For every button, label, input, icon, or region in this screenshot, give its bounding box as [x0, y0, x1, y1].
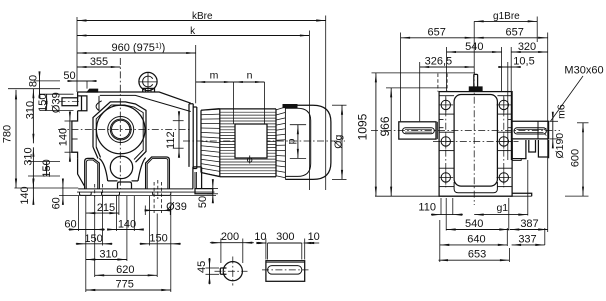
left stub keyway slot	[403, 128, 435, 134]
left foot hole lines dashed	[94, 184, 96, 197]
svg-text:Ø39: Ø39	[50, 92, 62, 113]
svg-text:kBre: kBre	[192, 11, 213, 22]
ext lines m n	[232, 82, 234, 124]
left foot rib	[85, 158, 100, 189]
dim kBre	[77, 20, 326, 22]
svg-text:45: 45	[196, 261, 208, 273]
motor body outline	[220, 109, 276, 177]
svg-text:200: 200	[221, 231, 239, 243]
motor flange block	[189, 104, 197, 169]
dim m	[196, 81, 234, 83]
ext line 657/320/387 right	[547, 33, 549, 233]
dim 45 keyway	[206, 267, 220, 269]
ext line 657 left	[400, 33, 402, 122]
left edge to foot	[78, 158, 85, 189]
svg-text:780: 780	[1, 125, 13, 143]
svg-text:150: 150	[149, 233, 167, 245]
cross section centerlines	[215, 270, 248, 272]
dim O190 m6	[550, 120, 559, 122]
svg-text:10: 10	[254, 231, 266, 243]
eyebolt cross lines	[139, 81, 158, 83]
dim 310 lower	[32, 147, 34, 188]
hollow shaft left stub	[399, 122, 436, 139]
bolt column centerlines	[445, 96, 447, 189]
bottom chain extension lines	[78, 196, 80, 231]
svg-text:657: 657	[506, 26, 524, 38]
housing left edge upper	[77, 92, 79, 98]
svg-text:140: 140	[58, 128, 70, 146]
lug mid line	[72, 138, 78, 140]
dim 355	[77, 66, 120, 68]
svg-text:653: 653	[468, 249, 486, 261]
svg-text:620: 620	[116, 264, 134, 276]
svg-text:540: 540	[465, 218, 483, 230]
svg-text:50: 50	[197, 196, 209, 208]
housing base	[375, 195, 532, 197]
left chain ext ticks	[8, 88, 60, 90]
dim 80	[39, 76, 41, 94]
svg-text:140: 140	[118, 219, 136, 231]
dim 310 upper	[32, 89, 34, 144]
terminal box	[235, 124, 267, 158]
ext line 326,5 left	[419, 62, 421, 121]
bottom ext lines right view	[440, 198, 442, 215]
dim 140 lug	[69, 114, 71, 159]
svg-text:10,5: 10,5	[513, 55, 534, 67]
ext line k right	[308, 31, 310, 191]
top eyebolt bump	[469, 87, 482, 92]
dim 50 motor foot	[207, 188, 218, 190]
motor fan cone section	[201, 109, 220, 177]
svg-text:m: m	[210, 70, 219, 82]
svg-text:310: 310	[24, 101, 36, 119]
svg-text:310: 310	[99, 249, 117, 261]
svg-text:g1Bre: g1Bre	[493, 11, 520, 22]
dim 540 bottom	[446, 229, 509, 231]
fan cover front vertical	[284, 105, 286, 179]
fan cover inner line	[285, 108, 310, 176]
svg-text:M30x60: M30x60	[564, 64, 603, 76]
svg-text:60: 60	[51, 197, 63, 209]
cable gland symbol	[249, 156, 251, 164]
ext line left housing top	[76, 17, 78, 92]
svg-text:110: 110	[418, 202, 436, 214]
dim 140 left chain bottom	[32, 181, 34, 202]
dim 310 bottom	[86, 259, 127, 261]
housing left edge with lug	[72, 111, 78, 159]
motor foot pad	[195, 189, 213, 194]
svg-text:p: p	[285, 138, 297, 144]
dim 50 top left	[86, 81, 88, 89]
motor cooling fins	[220, 111, 276, 113]
dim g1Bre	[474, 20, 537, 22]
svg-text:326,5: 326,5	[425, 55, 453, 67]
dim k	[77, 35, 309, 37]
dim 150 bottom left	[76, 243, 113, 245]
dim 387	[510, 229, 548, 231]
dim Og fan cover	[332, 104, 347, 106]
dim 10 right	[305, 242, 320, 244]
svg-text:1095: 1095	[355, 113, 369, 140]
dim 150 lower	[46, 162, 48, 177]
ext lines 200	[220, 239, 222, 264]
dim 1095	[375, 73, 377, 196]
dim 337	[512, 244, 545, 246]
dim 640	[440, 244, 508, 246]
svg-text:215: 215	[97, 202, 115, 214]
svg-text:310: 310	[23, 147, 35, 165]
shaft cross-section circle	[223, 262, 242, 281]
dim p terminal box	[290, 124, 306, 126]
svg-text:387: 387	[520, 218, 538, 230]
dim 215	[86, 212, 119, 214]
middle bolt row centerline	[433, 140, 519, 142]
bracket below right shaft	[512, 140, 548, 159]
svg-text:m6: m6	[556, 104, 568, 119]
motor centerline	[183, 140, 345, 142]
svg-text:640: 640	[467, 234, 485, 246]
right foot rib	[146, 157, 170, 189]
bearing cover plate	[78, 96, 87, 111]
svg-text:150: 150	[84, 233, 102, 245]
boss bottom block	[118, 182, 132, 189]
output side shaft stub pipe Ø39	[62, 98, 78, 106]
dim 320	[511, 51, 548, 53]
dim O39 feet holes	[144, 206, 146, 216]
ext line 960 right / m left	[195, 45, 197, 103]
pad plate line	[77, 191, 215, 193]
right stub keyway slot	[544, 128, 546, 136]
right shaft stub	[512, 121, 549, 139]
dim 966	[390, 88, 392, 196]
bolt pad lines	[439, 95, 454, 97]
svg-text:60: 60	[64, 218, 76, 230]
boss outline inner offset	[96, 105, 143, 160]
right foot hole lines dashed	[153, 182, 155, 213]
ext ticks 1095/966	[372, 72, 476, 74]
svg-text:140: 140	[19, 186, 31, 204]
svg-text:300: 300	[276, 231, 294, 243]
housing cover rounded rect	[454, 95, 497, 187]
svg-text:150: 150	[41, 159, 53, 177]
vertical centerline output boss	[119, 58, 121, 189]
horizontal centerline output axis	[58, 129, 191, 131]
vent plug (black)	[87, 89, 98, 92]
svg-text:320: 320	[518, 41, 536, 53]
svg-text:775: 775	[116, 278, 134, 290]
svg-text:966: 966	[378, 116, 392, 136]
shaft axis centerline	[371, 130, 560, 132]
svg-text:g1: g1	[496, 202, 508, 214]
ground baseline	[59, 194, 216, 196]
vertical centerline right view	[473, 21, 475, 70]
dim 150 upper	[46, 94, 48, 110]
keyway slot side view	[268, 266, 302, 275]
dim 540 top	[447, 51, 502, 53]
slot centerline	[262, 269, 309, 271]
motor support bracket	[193, 167, 202, 189]
dim 653	[439, 259, 510, 261]
svg-text:337: 337	[518, 234, 536, 246]
svg-text:150: 150	[37, 94, 49, 112]
svg-text:Ø190: Ø190	[554, 133, 566, 159]
dim 780	[15, 90, 17, 188]
ext line g1Bre right	[536, 17, 538, 43]
motor rear cone diagonal fins	[275, 109, 277, 177]
underside ledge line	[78, 188, 193, 190]
svg-text:10: 10	[308, 231, 320, 243]
dim 300	[268, 242, 302, 244]
svg-text:Ø39: Ø39	[166, 201, 187, 213]
dim 60 bottom	[69, 229, 105, 231]
black handle bar on cover top	[283, 105, 297, 108]
housing contour around lower boss	[99, 158, 145, 181]
dim 60 rotated	[62, 182, 64, 201]
dim 200	[210, 242, 254, 244]
dim 775	[86, 289, 171, 291]
dim g1	[474, 214, 528, 216]
dim 110	[431, 214, 463, 216]
dim 10 left	[257, 242, 266, 244]
boss outline outer	[93, 102, 146, 162]
dim 657 left	[401, 37, 475, 39]
bolt holes	[441, 100, 450, 109]
underside ledge extension line	[14, 187, 78, 189]
svg-text:80: 80	[27, 75, 39, 87]
ext line kBre right	[325, 16, 327, 191]
dim 326,5	[420, 66, 475, 68]
boss corner arc	[96, 96, 102, 111]
hidden dashed ext	[437, 74, 439, 92]
svg-text:112: 112	[165, 131, 177, 149]
keyway notch	[220, 268, 226, 274]
ext lines 540 top	[446, 47, 448, 92]
foot pads	[80, 192, 92, 195]
dim 960 (975)	[77, 52, 196, 54]
dim 10,5	[507, 62, 509, 160]
svg-text:540: 540	[465, 41, 483, 53]
ext line 320 left	[510, 47, 512, 160]
eyebolt stem front view	[474, 74, 478, 87]
right view housing outer rect	[439, 92, 512, 197]
dim 657 right	[474, 37, 548, 39]
dim 150 bottom right	[140, 243, 181, 245]
dim 140 bottom	[108, 229, 144, 231]
svg-text:657: 657	[428, 26, 446, 38]
housing top inner edge	[100, 95, 191, 111]
cover bottom skirt	[454, 182, 497, 193]
dim 620	[95, 274, 158, 276]
eyebolt base	[143, 88, 155, 91]
fan cover outer	[285, 105, 331, 179]
svg-text:355: 355	[90, 56, 108, 68]
dim n	[233, 81, 264, 83]
eyebolt ring	[139, 72, 157, 90]
keyway side view box	[266, 261, 305, 282]
output bore circles	[96, 105, 145, 154]
dim 112	[173, 120, 184, 122]
svg-text:n: n	[247, 70, 253, 82]
dim 600	[577, 122, 589, 124]
lower boss circle	[110, 156, 132, 178]
svg-text:Øg: Øg	[332, 135, 344, 149]
svg-text:600: 600	[570, 149, 582, 167]
svg-text:50: 50	[63, 70, 75, 82]
edge notches	[439, 119, 512, 127]
left view: gearbox housing top edge	[78, 92, 191, 103]
ext lines 10 300 10	[265, 239, 267, 260]
boss to feet left contour	[93, 147, 101, 159]
